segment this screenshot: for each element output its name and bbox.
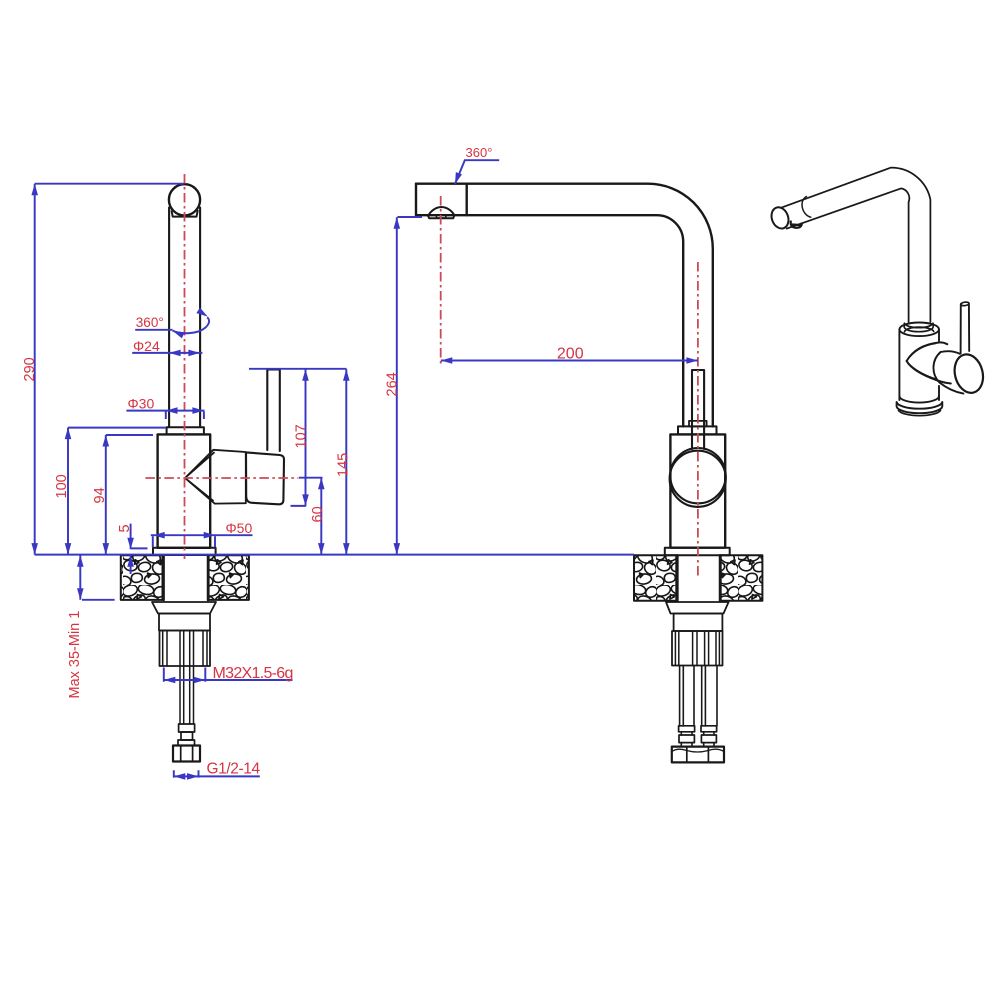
svg-text:264: 264 [385,372,401,396]
mounting nut body [159,614,210,631]
countertop reference line [35,554,634,556]
neck collar [678,426,717,434]
dim max35 lines [80,555,114,600]
3d spout end cap ellipse [769,205,792,231]
spline rib section [160,631,211,667]
svg-text:145: 145 [336,453,352,477]
rot 360 arc left [173,317,209,333]
svg-text:107: 107 [293,424,309,448]
left hose collar 1 [679,726,695,732]
3d aerator cap seam [802,197,811,218]
svg-text:M32X1.5-6g: M32X1.5-6g [213,665,293,682]
rot 360 underline left [135,329,172,331]
svg-text:5: 5 [117,524,133,532]
middle aerator centerline [440,196,442,365]
svg-text:360°: 360° [136,315,164,330]
spout left end [416,184,467,216]
hex nut wide [672,747,724,763]
handle knob [246,452,284,504]
left hose tube end [681,732,692,747]
handle rod [692,370,704,449]
spline rib section [672,631,723,666]
svg-text:100: 100 [54,474,70,498]
middle main centerline [697,262,699,576]
flange trapezoid under counter [152,602,216,614]
phi30 collar [167,427,204,434]
dim 5 lines [131,524,148,574]
dim 264 lines [397,217,422,555]
base flange [665,548,730,556]
spout ball top [169,184,200,215]
right hose collar 1 [701,726,717,732]
svg-text:290: 290 [22,357,38,381]
dim 290 lines [35,184,184,555]
3d knob side [940,351,964,393]
dim 94 lines [106,435,153,555]
svg-text:360°: 360° [466,145,493,160]
body [670,434,725,547]
threaded rod [180,631,194,725]
svg-text:Max 35-Min 1: Max 35-Min 1 [67,611,83,699]
shank through counter [677,555,720,600]
handle lever bar [267,370,280,452]
3d knob face [951,351,987,396]
top extension 107-145 [249,368,347,370]
shank through counter [164,555,208,600]
right hose tube end [704,732,714,747]
ball collar [172,211,198,217]
riser pipe [168,208,170,428]
svg-text:Φ30: Φ30 [128,396,155,412]
3d body sides [899,329,939,400]
left hose collar 2 [679,735,694,743]
svg-text:Φ50: Φ50 [226,520,253,536]
dim 60 lines [299,478,323,555]
svg-text:G1/2-14: G1/2-14 [207,761,261,778]
countertop right block [721,555,763,600]
spout tube outline [416,184,713,427]
left view vertical centerline [184,174,186,559]
rod base flange [689,421,707,427]
left view horizontal centerline [145,477,298,479]
countertop left block [121,555,163,600]
dim G12 lines [174,770,260,777]
mounting nut body [674,614,723,632]
dim 145 line [345,369,347,554]
countertop left block [634,555,676,600]
sphere circle [670,448,725,503]
right hose collar 2 [701,735,716,743]
rod collar 1 [179,724,195,732]
svg-text:200: 200 [557,345,584,362]
svg-text:60: 60 [310,506,326,522]
hex nut [173,746,200,762]
dim M32 lines [164,668,293,682]
countertop right block [209,555,249,600]
rod narrow [181,732,193,740]
dim 100 lines [68,428,166,555]
3d neck collar [904,323,933,327]
sphere circle offset [670,451,726,507]
dim phi30 line [126,411,204,419]
dim phi50 line [151,535,253,547]
3d cone [907,342,948,361]
right hose [702,666,717,727]
handle cone [185,450,215,504]
3d lever rod [961,304,970,354]
aerator dome [428,207,454,215]
dim 200 line [441,360,698,362]
left hose [680,666,694,727]
rod collar 2 [178,740,195,746]
mid 360 leader [455,160,499,184]
flange trapezoid under counter [666,602,729,614]
3d base flange [899,396,939,403]
svg-text:Φ24: Φ24 [133,338,160,354]
svg-text:94: 94 [92,487,108,503]
dim 107 lines [291,369,307,506]
3d body cylinder top rim [899,323,939,337]
3d knob back rim [933,352,940,383]
3d aerator outlet tab [791,222,802,228]
dim phi24 line [132,352,202,354]
3d spout tube [782,168,930,322]
body [158,434,211,547]
base plate [153,548,216,555]
